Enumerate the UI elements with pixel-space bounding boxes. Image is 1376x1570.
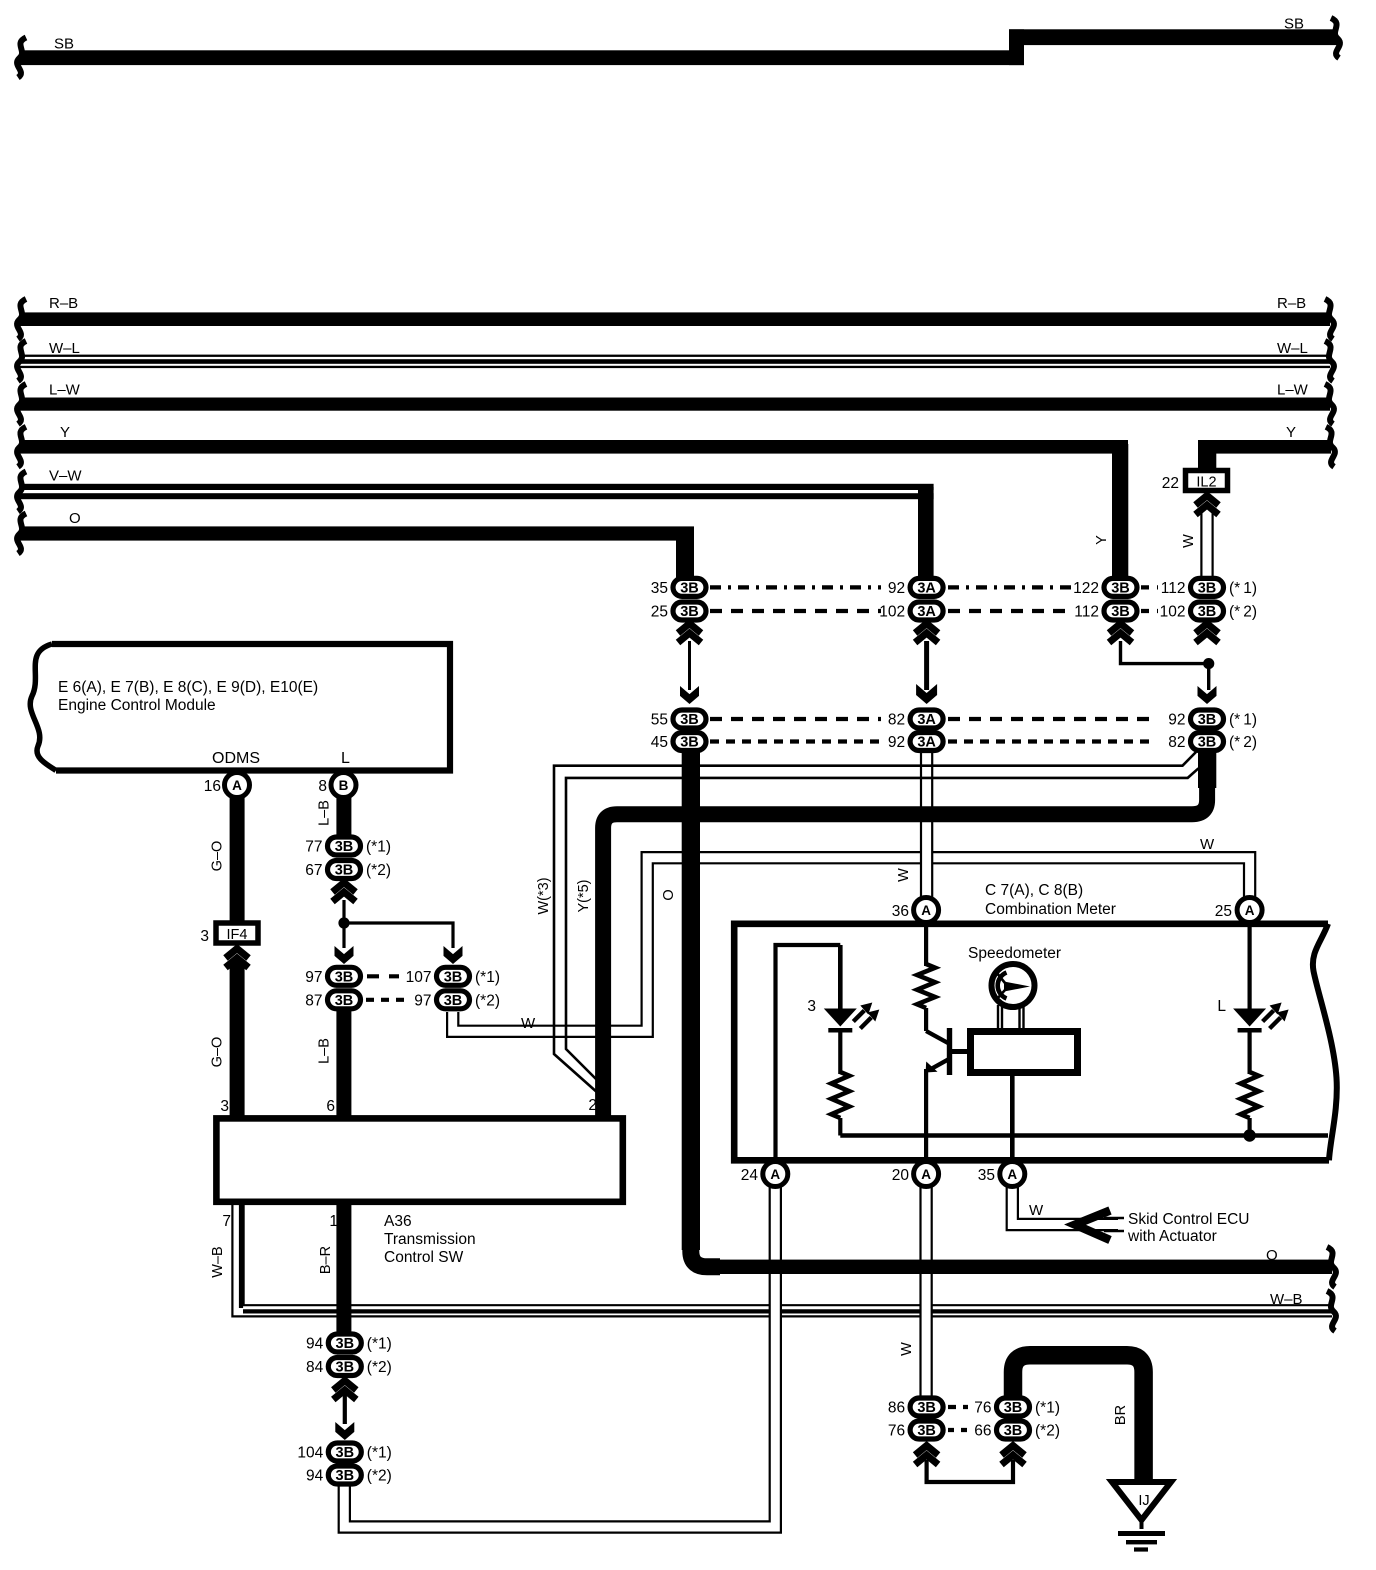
chevron arrow below 84 3B <box>333 1381 356 1391</box>
wire junction down to 92 3B arrowhead <box>1207 664 1210 690</box>
connector 97 3B / 87 3B <box>328 967 361 985</box>
svg-text:24: 24 <box>741 1167 759 1184</box>
svg-text:3B: 3B <box>680 604 699 620</box>
svg-text:3B: 3B <box>680 735 699 751</box>
svg-text:25: 25 <box>1215 903 1232 920</box>
svg-text:76: 76 <box>974 1400 991 1417</box>
svg-text:3B: 3B <box>336 1468 355 1484</box>
wire W-L bus (white w/ stripe) <box>20 355 1330 357</box>
svg-text:W: W <box>521 1015 536 1032</box>
svg-text:A: A <box>770 1167 780 1182</box>
arrowhead into 107 3B <box>444 946 463 964</box>
svg-text:3B: 3B <box>1198 712 1217 728</box>
A36 Transmission Control SW box <box>216 1118 622 1201</box>
svg-text:W–L: W–L <box>49 340 80 357</box>
arrowhead into 97 3B <box>335 946 354 964</box>
meter pin 25 A <box>1237 898 1262 923</box>
svg-text:C 7(A), C 8(B): C 7(A), C 8(B) <box>985 882 1083 899</box>
wire G-O from ECM pin A to IF4 <box>230 793 245 921</box>
svg-text:67: 67 <box>305 862 322 879</box>
connector 55 3B / 45 3B <box>673 710 706 728</box>
dashed link 86 3B to 76 3B(*1) <box>948 1405 968 1409</box>
svg-text:L–B: L–B <box>317 1038 333 1064</box>
svg-text:102: 102 <box>1160 604 1186 621</box>
svg-text:6: 6 <box>326 1098 335 1115</box>
dashed link row 102 3A to 112 3B <box>948 609 1072 613</box>
svg-text:76: 76 <box>888 1423 905 1440</box>
svg-text:3A: 3A <box>917 580 936 596</box>
svg-text:W(*3): W(*3) <box>536 877 552 914</box>
wire Y bus (right part, drops to IL2) <box>1198 440 1331 454</box>
svg-text:35: 35 <box>978 1167 995 1184</box>
svg-text:O: O <box>661 889 677 900</box>
dashed link row 82 3A to 92 3B(*1) <box>948 717 1155 721</box>
wire pin25 to LED L <box>1247 922 1251 1010</box>
wire W(*3) from connector 82 3B(*2) to A36 pin 2 <box>554 752 1196 1094</box>
svg-text:L–W: L–W <box>49 382 81 399</box>
svg-text:3B: 3B <box>444 969 463 985</box>
ECM pin 16 A <box>225 773 250 798</box>
svg-text:3B: 3B <box>1004 1423 1023 1439</box>
dashed link row 45 3B to 92 3A <box>710 739 881 743</box>
svg-text:(*2): (*2) <box>475 992 500 1009</box>
connector 92 3A / 102 3A <box>910 578 943 596</box>
svg-text:112: 112 <box>1074 604 1099 621</box>
dashed link row 92 3A to 82 3B(*2) <box>948 739 1155 743</box>
svg-text:3B: 3B <box>444 993 463 1009</box>
svg-text:(*2): (*2) <box>367 1359 392 1376</box>
dashed link 122 3B to 112 3B(*1) <box>1141 585 1158 589</box>
svg-text:(* 1): (* 1) <box>1229 712 1257 729</box>
svg-text:(*1): (*1) <box>1035 1400 1060 1417</box>
dashed link row 25 3B to 102 3A <box>710 609 881 613</box>
svg-text:BR: BR <box>1113 1405 1129 1425</box>
svg-text:(* 2): (* 2) <box>1229 734 1257 751</box>
wire O from connector 45 3B down to bottom O bus <box>682 750 700 1250</box>
wire LED L to resistor <box>1247 1030 1251 1074</box>
svg-text:R–B: R–B <box>1277 295 1306 312</box>
svg-text:(*1): (*1) <box>475 969 500 986</box>
svg-text:A: A <box>921 1167 931 1182</box>
LED 3 <box>824 1009 857 1027</box>
svg-text:104: 104 <box>297 1445 323 1462</box>
svg-text:Y: Y <box>1094 535 1110 545</box>
arrowhead into 55 3B <box>680 686 699 704</box>
svg-text:86: 86 <box>888 1400 905 1417</box>
connector 86 3B / 76 3B <box>910 1398 943 1416</box>
svg-text:3B: 3B <box>1111 580 1130 596</box>
svg-text:3: 3 <box>807 998 816 1015</box>
junction dot <box>1203 658 1214 669</box>
speedometer driver box <box>971 1032 1078 1073</box>
chevron arrow below 102 3B(*2) <box>1196 624 1219 634</box>
wire junction right then down to 107 3B arrowhead <box>344 923 453 948</box>
wire driver box to pin 35 <box>1010 1076 1015 1162</box>
wire junction to 97 3B arrowhead <box>342 923 345 948</box>
connector 77 3B(*1) / 67 3B(*2) <box>328 837 361 855</box>
svg-text:55: 55 <box>651 712 668 729</box>
svg-text:W: W <box>896 868 912 882</box>
svg-text:W: W <box>1181 534 1197 548</box>
svg-text:102: 102 <box>879 604 905 621</box>
arrowhead into 82 3A <box>916 684 937 704</box>
speedometer legs <box>997 1005 999 1030</box>
svg-text:with Actuator: with Actuator <box>1127 1228 1217 1245</box>
wire from 25 3B chevron down to 55 3B arrowhead <box>688 641 691 690</box>
svg-text:W–B: W–B <box>210 1246 226 1277</box>
connector 76 3B(*1) / 66 3B(*2) <box>997 1398 1030 1416</box>
svg-text:IJ: IJ <box>1138 1493 1149 1509</box>
svg-text:(*2): (*2) <box>1035 1423 1060 1440</box>
wire from 67 3B chevron down to junction dot <box>342 900 345 925</box>
junction dot on rail <box>1243 1129 1255 1141</box>
wire W-B from A36 pin 7 to bottom right bus <box>238 1203 1332 1311</box>
svg-text:O: O <box>69 510 81 527</box>
chevron arrow below 67 3B <box>333 883 356 893</box>
svg-text:Skid Control ECU: Skid Control ECU <box>1128 1211 1249 1228</box>
wire from 84 3B chevron to 104 3B arrowhead <box>343 1394 347 1424</box>
svg-text:3B: 3B <box>1004 1400 1023 1416</box>
wire V-W bus (dark w/ white stripe, drops to 92 3A) <box>20 484 934 490</box>
connector 122 3B / 112 3B <box>1104 578 1137 596</box>
svg-text:94: 94 <box>306 1468 324 1485</box>
svg-text:Control SW: Control SW <box>384 1249 464 1266</box>
wire R-B bus <box>20 312 1330 326</box>
chevron arrow below 112 3B <box>1109 624 1132 634</box>
svg-text:IL2: IL2 <box>1196 475 1216 491</box>
svg-text:(*2): (*2) <box>367 1468 392 1485</box>
svg-text:66: 66 <box>974 1423 991 1440</box>
svg-text:3B: 3B <box>680 580 699 596</box>
connector 94 3B(*1) / 84 3B(*2) <box>328 1334 361 1352</box>
resistor left <box>831 1072 849 1118</box>
wire SB bus top <box>20 50 1024 65</box>
wire G-O from IF4 to A36 pin 3 <box>230 962 245 1118</box>
wire O bus bottom right <box>700 1260 1332 1274</box>
svg-text:3A: 3A <box>917 604 936 620</box>
svg-text:3B: 3B <box>1198 604 1217 620</box>
wire from 112 3B chevron down then right to junction <box>1121 641 1209 664</box>
wire resistor to rail junction <box>1247 1118 1251 1136</box>
svg-text:Y(*5): Y(*5) <box>576 879 592 912</box>
chevron arrow below 66 3B <box>1002 1446 1025 1456</box>
wire resistor to bottom rail <box>838 1118 842 1136</box>
speedometer gauge circle <box>992 964 1035 1007</box>
wire emitter down to pin 20 <box>924 1069 928 1162</box>
connector IF4 <box>216 923 258 943</box>
wire L-B from ECM pin B to 77 3B <box>336 793 351 837</box>
meter pin 35 A <box>1000 1162 1025 1187</box>
svg-text:3B: 3B <box>1198 735 1217 751</box>
connector 112 3B(*1) / 102 3B(*2) <box>1191 578 1224 596</box>
connector IL2 <box>1186 471 1228 491</box>
svg-text:20: 20 <box>892 1167 910 1184</box>
wire U-link between 76 3B and 66 3B chevrons <box>927 1460 1013 1482</box>
svg-text:G–O: G–O <box>210 1037 226 1068</box>
connector 104 3B(*1) / 94 3B(*2) <box>328 1443 361 1461</box>
chevron arrow below IL2 <box>1196 496 1219 506</box>
svg-text:L: L <box>341 750 350 767</box>
wire O bus (left, drops to 35 3B) <box>20 526 694 540</box>
wire Y bus (left part, drops to 122 3B) <box>20 440 1128 454</box>
svg-text:W: W <box>1029 1202 1044 1219</box>
wire W from connector 92 3A to combination meter pin 36 <box>920 750 933 903</box>
svg-text:3B: 3B <box>336 1360 355 1376</box>
connector 35 3B / 25 3B <box>673 578 706 596</box>
svg-text:(* 1): (* 1) <box>1229 580 1257 597</box>
wire W from combination meter pin 35 to Skid Control ECU arrow <box>1012 1180 1118 1225</box>
resistor right <box>1241 1072 1259 1118</box>
svg-text:3B: 3B <box>917 1423 936 1439</box>
svg-text:W–B: W–B <box>1270 1291 1303 1308</box>
svg-text:SB: SB <box>1284 16 1304 33</box>
svg-text:92: 92 <box>1168 712 1185 729</box>
svg-text:Transmission: Transmission <box>384 1231 476 1248</box>
wire to LED 3 <box>838 945 843 1010</box>
chevron arrow below IF4 <box>226 949 249 959</box>
svg-text:W: W <box>1200 836 1215 853</box>
arrowhead into 92 3B(*1) <box>1198 686 1217 704</box>
meter inner wire from pin 24 up and right <box>776 945 841 1160</box>
svg-text:92: 92 <box>888 734 905 751</box>
arrowhead into 104 3B <box>335 1422 354 1440</box>
svg-text:W: W <box>899 1342 915 1356</box>
connector 82 3A / 92 3A <box>910 710 943 728</box>
svg-text:L–B: L–B <box>317 800 333 826</box>
meter pin 24 A <box>763 1162 788 1187</box>
svg-text:B–R: B–R <box>318 1246 334 1274</box>
svg-text:A36: A36 <box>384 1213 412 1230</box>
svg-text:82: 82 <box>888 712 905 729</box>
svg-text:122: 122 <box>1073 580 1099 597</box>
svg-text:L–W: L–W <box>1277 382 1309 399</box>
wire L-B from 87 3B to A36 pin 6 <box>336 1010 351 1118</box>
svg-text:Y: Y <box>60 424 70 441</box>
svg-text:Y: Y <box>1286 424 1296 441</box>
wire W from combination meter pin 20 to connector 86 3B <box>919 1180 932 1398</box>
ground IJ <box>1112 1482 1171 1520</box>
chevron arrow below 102 3A <box>915 624 938 634</box>
LED L <box>1233 1009 1266 1027</box>
meter bottom rail <box>840 1133 1328 1138</box>
svg-text:(* 2): (* 2) <box>1229 604 1257 621</box>
svg-text:77: 77 <box>305 839 322 856</box>
wire W from IL2 to connector 112 3B <box>1200 512 1213 580</box>
svg-text:3: 3 <box>220 1098 229 1115</box>
wire BR from 76 3B(*1) to ground IJ <box>1013 1355 1144 1489</box>
svg-text:3B: 3B <box>335 863 354 879</box>
wire (white) from connector 94 3B(*2) to combination meter pin 24 <box>344 1178 775 1527</box>
transistor Q (speedometer driver) <box>926 1031 948 1043</box>
svg-text:3B: 3B <box>336 1336 355 1352</box>
wire W from connector 97 3B(*2) to combination meter pin 25 <box>453 858 1250 1032</box>
wire B-R from A36 pin 1 to 94 3B <box>336 1203 351 1337</box>
svg-text:(*1): (*1) <box>367 1445 392 1462</box>
chevron arrow below 25 3B <box>678 624 701 634</box>
wire Y(*5) from connector 82 3B(*2) to A36 pin 2 <box>566 768 1199 1089</box>
dashed link 87 3B to 97 3B(*2) <box>366 998 409 1002</box>
svg-text:3B: 3B <box>1198 580 1217 596</box>
wire resistor to transistor collector <box>924 1008 928 1031</box>
svg-text:G–O: G–O <box>210 841 226 872</box>
svg-text:45: 45 <box>651 734 668 751</box>
connector 107 3B(*1) / 97 3B(*2) <box>437 967 470 985</box>
svg-text:E 6(A), E 7(B), E 8(C), E 9(D): E 6(A), E 7(B), E 8(C), E 9(D), E10(E) <box>58 679 318 696</box>
svg-text:3B: 3B <box>680 712 699 728</box>
svg-text:O: O <box>1266 1247 1278 1264</box>
wire from 102 3A chevron down to 82 3A arrowhead <box>924 641 929 690</box>
svg-text:3B: 3B <box>917 1400 936 1416</box>
svg-text:3A: 3A <box>917 735 936 751</box>
svg-text:107: 107 <box>406 969 432 986</box>
svg-text:Speedometer: Speedometer <box>968 945 1061 962</box>
meter pin 36 A <box>914 898 939 923</box>
chevron arrow below 76 3B <box>915 1446 938 1456</box>
svg-text:7: 7 <box>222 1213 231 1230</box>
svg-text:97: 97 <box>305 969 322 986</box>
svg-text:3B: 3B <box>336 1445 355 1461</box>
svg-text:3B: 3B <box>335 993 354 1009</box>
svg-text:(*2): (*2) <box>366 862 391 879</box>
svg-text:35: 35 <box>651 580 668 597</box>
Engine Control Module box <box>52 644 450 771</box>
svg-text:25: 25 <box>651 604 668 621</box>
svg-text:3A: 3A <box>917 712 936 728</box>
svg-text:87: 87 <box>305 992 322 1009</box>
SB right brace <box>1331 18 1340 58</box>
svg-text:2: 2 <box>588 1097 597 1114</box>
svg-text:3B: 3B <box>1111 604 1130 620</box>
dashed link 76 3B to 66 3B(*2) <box>948 1428 968 1432</box>
connector 92 3B(*1) / 82 3B(*2) <box>1191 710 1224 728</box>
dashed link row 92 3A to 122 3B <box>948 585 1072 589</box>
svg-text:36: 36 <box>892 903 909 920</box>
svg-text:8: 8 <box>318 778 327 795</box>
svg-text:3B: 3B <box>335 969 354 985</box>
svg-text:A: A <box>1245 903 1255 918</box>
svg-text:84: 84 <box>306 1359 324 1376</box>
wire pin36 to resistor <box>924 922 928 966</box>
wire LED to resistor <box>838 1030 842 1074</box>
dashed link 97 3B to 107 3B(*1) <box>367 974 399 978</box>
SB left brace <box>17 38 26 78</box>
meter pin 20 A <box>914 1162 939 1187</box>
svg-text:16: 16 <box>204 778 221 795</box>
svg-text:IF4: IF4 <box>227 927 248 943</box>
svg-text:L: L <box>1217 998 1226 1015</box>
svg-text:(*1): (*1) <box>367 1336 392 1353</box>
wire L-W bus <box>20 398 1330 411</box>
svg-text:112: 112 <box>1161 580 1186 597</box>
svg-text:W–L: W–L <box>1277 340 1308 357</box>
resistor middle <box>917 964 935 1008</box>
dashed link row 35 3B to 92 3A <box>710 585 881 589</box>
dashed link row 55 3B to 82 3A <box>710 717 881 721</box>
dashed link 112 3B to 102 3B(*2) <box>1141 609 1158 613</box>
svg-text:(*1): (*1) <box>366 839 391 856</box>
svg-text:A: A <box>1007 1167 1017 1182</box>
svg-text:3B: 3B <box>335 839 354 855</box>
svg-text:22: 22 <box>1162 475 1179 492</box>
svg-text:A: A <box>921 903 931 918</box>
svg-text:3: 3 <box>200 928 209 945</box>
svg-text:A: A <box>232 778 242 793</box>
Skid Control ECU arrow <box>1075 1211 1110 1241</box>
svg-text:82: 82 <box>1168 734 1185 751</box>
svg-text:R–B: R–B <box>49 295 78 312</box>
svg-text:V–W: V–W <box>49 468 82 485</box>
W-B bus right label/brace <box>1327 1291 1336 1331</box>
svg-text:B: B <box>339 778 349 793</box>
svg-text:1: 1 <box>329 1213 338 1230</box>
wire O thick horizontal from A36 pin2 riser to 82 3B(*2) <box>603 748 1207 1118</box>
svg-text:97: 97 <box>414 992 431 1009</box>
svg-text:92: 92 <box>888 580 905 597</box>
svg-text:Engine Control Module: Engine Control Module <box>58 697 216 714</box>
junction dot below 67 3B <box>338 917 349 928</box>
svg-text:SB: SB <box>54 36 74 53</box>
svg-text:Combination Meter: Combination Meter <box>985 901 1116 918</box>
ECM pin 8 B <box>331 773 356 798</box>
Combination Meter box <box>734 924 1329 1161</box>
svg-text:ODMS: ODMS <box>212 750 260 767</box>
svg-text:94: 94 <box>306 1336 324 1353</box>
